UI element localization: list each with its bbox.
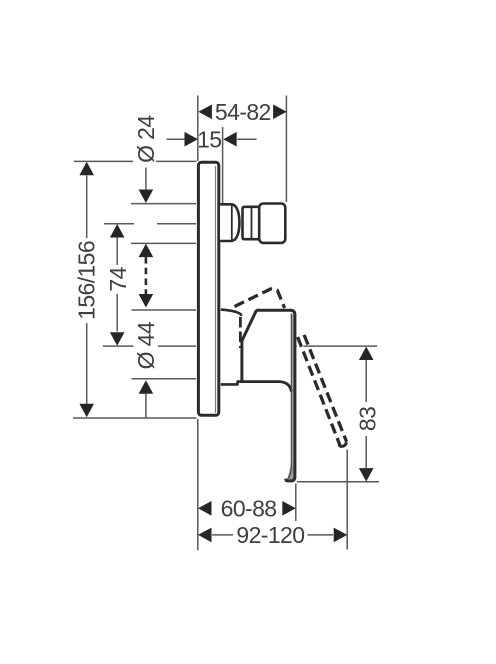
lever back slanted edge — [242, 310, 257, 381]
dashed lever silhouette (up position) — [235, 289, 285, 308]
svg-text:Ø 44: Ø 44 — [133, 321, 159, 369]
dimension Ø24 leader line — [145, 168, 147, 190]
extension line: cartridge bottom (Ø44 bottom), y=378.8 — [132, 378, 197, 380]
spout nut (piece 2) — [243, 207, 260, 239]
shared dashed tail Ø24/Ø44 — [145, 257, 148, 294]
dimension Ø24 down arrow — [139, 190, 154, 204]
spout nut inner line — [251, 208, 253, 238]
svg-text:92-120: 92-120 — [236, 522, 304, 548]
dimension 15 left arrow + tail — [167, 138, 185, 140]
extension line: 54-82 left / plate wall side, x=198 top — [197, 96, 199, 162]
dimension 156/156 line + arrows — [79, 162, 94, 176]
dimension 60-88 arrows — [198, 501, 212, 516]
dashed lever (pulled position) front line — [304, 335, 347, 442]
center line: cartridge axis left (74 bottom) — [103, 345, 134, 347]
spout adapter (piece 1 with dome) — [220, 204, 239, 241]
lever handle outer outline — [256, 310, 295, 481]
dimension 15 right arrow + tail — [223, 132, 237, 147]
svg-text:15: 15 — [197, 126, 221, 152]
svg-text:156/156: 156/156 — [74, 241, 100, 320]
extension line: 83 top (cartridge axis right), y=346.1 — [304, 345, 378, 347]
dimension 54-82 arrows — [198, 105, 212, 120]
svg-text:Ø 24: Ø 24 — [133, 115, 159, 163]
dimension 83 line + arrows — [359, 347, 374, 361]
svg-text:60-88: 60-88 — [221, 495, 277, 521]
center line: spout axis right segment — [157, 223, 196, 225]
escutcheon plate — [198, 162, 218, 415]
extension line: cartridge top (Ø44 top), y=310 — [132, 309, 197, 311]
dashed lever (pulled position) back line — [298, 337, 340, 445]
extension line: 83 bottom (handle end), y=482.7 — [297, 481, 379, 483]
extension line: 60-88 right, x=294.6 — [295, 484, 297, 522]
dimension Ø24 up arrow — [139, 244, 154, 258]
spout end piece (piece 3) — [259, 204, 285, 243]
extension line: 92-120 right, x=347.2 — [346, 450, 348, 550]
handle sleeve bottom edge with step — [221, 382, 241, 385]
dashed lever (pulled position) end cap — [339, 442, 347, 446]
spout adapter inner line — [231, 206, 233, 240]
lever handle inner bottom edge + corner — [240, 382, 291, 392]
dimension 92-120 arrows + tails — [198, 528, 212, 543]
svg-text:54-82: 54-82 — [215, 99, 271, 125]
dimension 74 line + arrows — [110, 224, 125, 238]
extension line: 54-82 right, x=287 — [285, 96, 287, 203]
dashed lever front edge (up position) — [239, 317, 242, 348]
extension line: spout bottom (Ø24 bottom), y=243.4 — [131, 242, 196, 244]
extension line: 156/156 top, y=162.4 — [74, 160, 133, 162]
dimension Ø44 up arrow + tail — [139, 380, 154, 394]
handle sleeve top edge — [221, 310, 242, 316]
extension line: 15 right, x=222.6 — [222, 127, 224, 204]
plate front face inner line — [215, 166, 217, 413]
lever handle inner face thin line — [288, 314, 292, 479]
extension line: plate bottom (156/156 bottom), y=416.6 — [73, 417, 197, 419]
svg-text:74: 74 — [105, 266, 131, 291]
lever handle grey face band — [292, 314, 294, 464]
svg-text:83: 83 — [354, 407, 380, 431]
center line: spout axis left segment — [104, 223, 134, 225]
dimension Ø44 down arrow — [139, 294, 154, 308]
extension line: spout top (Ø24 top), y=203.6 — [131, 203, 196, 205]
extension line: plate left bottom, x=197.8 — [197, 419, 199, 550]
